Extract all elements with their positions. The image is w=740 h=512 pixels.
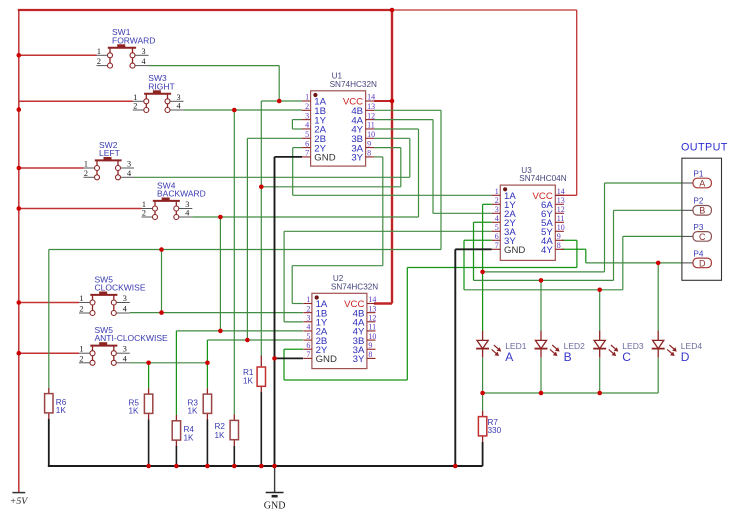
- junction SW4/U2-2A: [218, 329, 223, 334]
- svg-text:D: D: [699, 258, 706, 268]
- svg-text:12: 12: [557, 205, 565, 214]
- junction +5V/SW5cw: [17, 300, 22, 305]
- junction gnd bus GND: [272, 464, 277, 469]
- wire U2 2Y to U3 4A: [284, 348, 303, 350]
- svg-text:2: 2: [305, 102, 309, 111]
- resistor R7 330: [478, 417, 501, 436]
- svg-text:4Y: 4Y: [541, 245, 553, 256]
- svg-text:11: 11: [557, 214, 565, 223]
- R1 leads: [260, 356, 262, 368]
- svg-text:1: 1: [97, 47, 101, 56]
- pad P3 C: [682, 223, 712, 242]
- wire +5V to SW4 pin1: [19, 208, 142, 210]
- svg-text:8: 8: [557, 241, 561, 250]
- svg-text:14: 14: [557, 187, 565, 196]
- svg-text:4: 4: [142, 57, 146, 66]
- +5V supply rail : left vertical bus: [18, 10, 20, 493]
- resistor R2 1K: [215, 420, 239, 439]
- svg-text:3: 3: [495, 205, 499, 214]
- svg-text:3: 3: [123, 294, 127, 303]
- svg-text:3: 3: [306, 314, 310, 323]
- svg-text:12: 12: [368, 314, 376, 323]
- svg-text:2: 2: [133, 102, 137, 111]
- junction U1-2B/U2-2B: [245, 338, 250, 343]
- wire +5V to SW5 CW pin1: [19, 302, 79, 304]
- svg-text:1K: 1K: [184, 433, 195, 442]
- svg-text:8: 8: [367, 149, 371, 158]
- svg-text:A: A: [505, 350, 513, 364]
- wire +5V down to U3 VCC: [576, 10, 578, 195]
- junction gnd bus R3: [205, 464, 210, 469]
- svg-text:1K: 1K: [188, 407, 199, 416]
- svg-text:1: 1: [306, 295, 310, 304]
- svg-text:6: 6: [495, 232, 499, 241]
- svg-text:4: 4: [305, 121, 309, 130]
- svg-text:10: 10: [557, 223, 565, 232]
- svg-text:1K: 1K: [56, 406, 67, 415]
- svg-text:OUTPUT: OUTPUT: [681, 142, 728, 154]
- op-amp? no: IC U1 SN74HC32N: [302, 72, 377, 167]
- svg-text:5: 5: [306, 332, 310, 341]
- switch SW4 BACKWARD: [142, 180, 206, 219]
- net SW5 ANTI-CLOCKWISE : pin4, R5, R3, up to U2 2B, U1 2B: [130, 362, 208, 364]
- svg-text:1: 1: [133, 93, 137, 102]
- wire +5V to SW3 pin1: [19, 100, 133, 102]
- svg-text:11: 11: [368, 323, 376, 332]
- GND vertical: [274, 157, 276, 466]
- svg-text:7: 7: [305, 149, 309, 158]
- resistor R3 1K: [188, 394, 212, 416]
- svg-text:GND: GND: [316, 354, 337, 365]
- junction U2 GND: [272, 356, 277, 361]
- svg-text:3: 3: [177, 93, 181, 102]
- svg-text:2: 2: [97, 57, 101, 66]
- svg-text:4: 4: [123, 305, 127, 314]
- svg-text:11: 11: [367, 121, 375, 130]
- junction gnd bus R5: [146, 464, 151, 469]
- op-amp? no: IC U3 SN74HC04N: [492, 166, 567, 261]
- R7 top lead: [482, 393, 484, 411]
- junction gnd bus U3: [453, 464, 458, 469]
- svg-text:1K: 1K: [129, 407, 140, 416]
- svg-text:+5V: +5V: [10, 496, 29, 507]
- pad P4 D: [682, 249, 712, 268]
- wire U2 1Y to U3 3A: [284, 321, 303, 323]
- wire U1 4Y (pin11) to U3 2A: [374, 119, 433, 121]
- net A : U3 1Y to LED1 and P1: [483, 203, 492, 205]
- wire U1 GND pin7: [275, 156, 303, 158]
- resistor R6 1K: [45, 394, 67, 416]
- svg-text:10: 10: [367, 130, 375, 139]
- svg-text:SN74HC32N: SN74HC32N: [330, 80, 377, 89]
- switch SW3 RIGHT: [133, 73, 184, 112]
- supply symbol +5V: [10, 493, 29, 507]
- svg-text:1K: 1K: [243, 377, 254, 386]
- net SW3/RIGHT : SW3 pin4 to U1 1B and R2: [184, 109, 235, 111]
- svg-text:5: 5: [495, 223, 499, 232]
- svg-text:RIGHT: RIGHT: [148, 81, 174, 91]
- junction +5V/SW4: [17, 206, 22, 211]
- net SW5 CLOCKWISE : pin4 to U2 1B, up to U1 4B (pin13), R6: [130, 312, 303, 314]
- svg-text:1: 1: [495, 187, 499, 196]
- svg-text:C: C: [622, 350, 631, 364]
- svg-text:A: A: [699, 178, 705, 188]
- svg-text:3Y: 3Y: [353, 354, 365, 365]
- +5V top bus thin segment: [392, 9, 577, 11]
- svg-text:SN74HC04N: SN74HC04N: [519, 174, 566, 183]
- op-amp? no: IC U2 SN74HC32N: [303, 274, 378, 368]
- svg-text:13: 13: [367, 102, 375, 111]
- junction U1 VCC: [390, 99, 395, 104]
- connector J1 OUTPUT: [681, 142, 728, 281]
- LED LED2 B: [535, 331, 586, 364]
- svg-text:B: B: [699, 206, 705, 216]
- svg-text:P1: P1: [693, 169, 703, 178]
- junction LED bus / R7: [480, 391, 485, 396]
- wire U2 2A row: [176, 330, 303, 332]
- wire +5V to SW5 ACW pin1: [19, 352, 79, 354]
- svg-text:D: D: [681, 350, 690, 364]
- junction gnd bus R1: [259, 464, 264, 469]
- svg-text:9: 9: [557, 232, 561, 241]
- svg-text:GND: GND: [264, 501, 286, 512]
- svg-text:7: 7: [306, 350, 310, 359]
- pad P2 B: [682, 197, 712, 216]
- svg-text:5: 5: [305, 130, 309, 139]
- svg-text:GND: GND: [504, 245, 525, 256]
- svg-text:GND: GND: [314, 153, 335, 164]
- junction ACW/R5: [146, 361, 151, 366]
- wire U1 2Y to U3 1A: [293, 147, 302, 149]
- wire +5V to SW1 pin1: [19, 54, 97, 56]
- svg-text:LEFT: LEFT: [99, 148, 120, 158]
- +5V top bus thick segment: [18, 9, 392, 11]
- svg-text:8: 8: [368, 350, 372, 359]
- junction +5V near SW3: [17, 107, 22, 112]
- svg-text:P2: P2: [693, 197, 703, 206]
- svg-text:1: 1: [79, 294, 83, 303]
- ground bus: [48, 465, 483, 467]
- wire +5V to SW2 pin1: [19, 167, 84, 169]
- junction +5V/SW2: [17, 166, 22, 171]
- resistor R5 1K: [129, 394, 153, 416]
- resistor R4 1K: [172, 421, 194, 443]
- svg-text:P4: P4: [693, 249, 703, 258]
- svg-text:13: 13: [557, 196, 565, 205]
- net D : U3 4Y to LED4 and P4: [561, 248, 585, 250]
- thick VCC vertical to U1/U2: [391, 9, 393, 304]
- svg-text:FORWARD: FORWARD: [112, 35, 155, 45]
- wire U1 3Y (pin8) to U2 1A: [374, 156, 383, 158]
- svg-text:4: 4: [185, 209, 189, 218]
- svg-text:2: 2: [84, 169, 88, 178]
- junction SW4 net: [218, 215, 223, 220]
- svg-text:2: 2: [142, 209, 146, 218]
- net SW1 down to R1 and U1 3A: [260, 101, 262, 356]
- ground symbol GND: [264, 466, 286, 512]
- svg-text:C: C: [699, 232, 706, 242]
- switch SW2 LEFT: [84, 140, 135, 180]
- net SW4/BACKWARD : SW4 pin4 to U1 4A (pin12), U2 2A, R4: [192, 216, 418, 218]
- svg-text:7: 7: [495, 241, 499, 250]
- junction CW net top: [159, 247, 164, 252]
- junction top bus: [390, 8, 395, 13]
- svg-text:6: 6: [305, 139, 309, 148]
- junction SW3/U1-1B: [232, 108, 237, 113]
- svg-text:1K: 1K: [215, 431, 226, 440]
- svg-text:12: 12: [367, 111, 375, 120]
- junction net A / LED1: [480, 270, 485, 275]
- switch SW1 FORWARD: [97, 27, 156, 68]
- svg-text:10: 10: [368, 332, 376, 341]
- svg-text:14: 14: [368, 295, 376, 304]
- net C : U3 3Y to LED3 and P3: [464, 239, 492, 241]
- junction gnd bus R2: [232, 464, 237, 469]
- junction gnd bus R4: [174, 464, 179, 469]
- svg-text:9: 9: [367, 139, 371, 148]
- resistor R1 1K: [243, 367, 266, 386]
- svg-text:4: 4: [123, 354, 127, 363]
- junction SW1/U1-1A: [277, 99, 282, 104]
- svg-text:4: 4: [306, 323, 310, 332]
- junction SW1 net/3A: [259, 185, 264, 190]
- svg-text:2: 2: [306, 304, 310, 313]
- svg-text:14: 14: [367, 93, 375, 102]
- svg-text:3: 3: [123, 345, 127, 354]
- wire U3 VCC pin 14: [556, 194, 577, 196]
- LED LED3 C: [593, 331, 644, 364]
- junction +5V/SW1: [17, 53, 22, 58]
- net B : U3 2Y to LED2 and P2: [474, 221, 492, 223]
- net SW2/LEFT : SW2 pin4 to U1 3B (pin10): [134, 176, 410, 178]
- svg-text:6: 6: [306, 341, 310, 350]
- wire U2 VCC pin 14: [374, 302, 392, 304]
- wire U2 GND pin7: [275, 357, 304, 359]
- svg-text:P3: P3: [693, 223, 703, 232]
- svg-text:13: 13: [368, 304, 376, 313]
- net SW1/FORWARD : SW1 pin4 to U1 1A: [149, 65, 280, 67]
- svg-text:B: B: [564, 350, 572, 364]
- junction net D / LED4: [656, 261, 661, 266]
- svg-text:1: 1: [79, 345, 83, 354]
- svg-text:4: 4: [495, 214, 499, 223]
- junction LED bus LED3: [597, 391, 602, 396]
- svg-text:4: 4: [177, 102, 181, 111]
- svg-text:1: 1: [84, 160, 88, 169]
- junction +5V/SW5acw: [17, 351, 22, 356]
- svg-text:3: 3: [305, 111, 309, 120]
- svg-text:3: 3: [127, 160, 131, 169]
- switch SW5B ANTI-CLOCKWISE: [79, 325, 168, 365]
- LED cathode bus: [483, 392, 659, 394]
- svg-text:2: 2: [79, 354, 83, 363]
- svg-text:SN74HC32N: SN74HC32N: [331, 282, 378, 291]
- wire U3 GND pin7: [455, 248, 491, 250]
- svg-text:2: 2: [495, 196, 499, 205]
- svg-text:ANTI-CLOCKWISE: ANTI-CLOCKWISE: [95, 333, 169, 343]
- svg-text:1: 1: [305, 93, 309, 102]
- svg-text:CLOCKWISE: CLOCKWISE: [95, 283, 146, 293]
- junction net C / LED3: [597, 288, 602, 293]
- LED LED1 A: [476, 331, 527, 364]
- wire U1 1Y to U1 2A loop: [292, 119, 302, 121]
- LED LED4 D: [652, 331, 703, 364]
- svg-text:4: 4: [127, 169, 131, 178]
- svg-text:330: 330: [488, 426, 502, 435]
- svg-text:3Y: 3Y: [351, 153, 363, 164]
- svg-text:R2: R2: [215, 422, 226, 431]
- junction ACW/R3: [205, 361, 210, 366]
- junction CW net bottom: [159, 310, 164, 315]
- switch SW5 CLOCKWISE: [79, 274, 146, 315]
- svg-text:BACKWARD: BACKWARD: [157, 189, 206, 199]
- junction net B / LED2: [539, 278, 544, 283]
- pad P1 A: [682, 169, 712, 188]
- wire U1 VCC pin 14: [374, 100, 392, 102]
- svg-text:2: 2: [79, 305, 83, 314]
- svg-text:3: 3: [142, 47, 146, 56]
- junction LED bus LED2: [539, 391, 544, 396]
- svg-text:9: 9: [368, 341, 372, 350]
